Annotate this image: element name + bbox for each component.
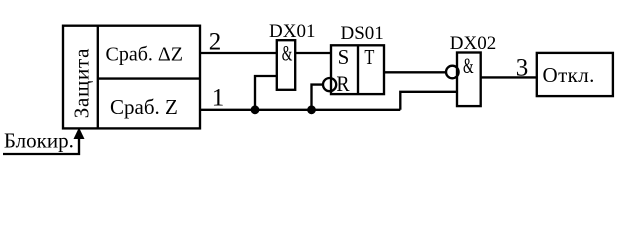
flip-flop DS01 divider — [357, 45, 359, 94]
svg-text:T: T — [364, 45, 374, 69]
svg-text:1: 1 — [212, 85, 225, 112]
svg-text:Блокир.: Блокир. — [4, 129, 74, 153]
block U0 horizontal divider — [98, 77, 200, 79]
wire junction to DX01 pin 2 — [255, 76, 277, 110]
svg-text:DS01: DS01 — [341, 23, 384, 44]
svg-text:S: S — [338, 45, 350, 69]
wire DS01 T output to DX02 — [384, 71, 446, 73]
and-gate DX01 body — [277, 40, 295, 90]
wire node 1 to DX02 pin 2 — [400, 92, 457, 110]
block Откл box — [537, 53, 613, 96]
wire Блокир underline and riser — [3, 139, 79, 155]
svg-text:Сраб. ΔZ: Сраб. ΔZ — [106, 44, 183, 66]
wire node 1 output Сраб. Z — [200, 109, 400, 111]
wire node 2 output Сраб. ΔZ — [200, 52, 277, 54]
wire junction to DS01 R input — [312, 85, 324, 110]
svg-text:DX01: DX01 — [269, 21, 315, 42]
svg-text:R: R — [336, 71, 349, 96]
block U0 vertical divider — [97, 26, 99, 129]
inversion circle DX02 input — [446, 66, 459, 79]
svg-text:Защита: Защита — [70, 48, 94, 119]
svg-text:&: & — [463, 53, 474, 78]
block U0 Защита outer box — [63, 26, 200, 129]
flip-flop DS01 body — [331, 45, 384, 94]
wire DX01 output to DS01 S input — [295, 52, 331, 54]
arrowhead Блокир into Защита — [74, 128, 85, 140]
and-gate DX02 body — [457, 53, 481, 107]
junction dot node 1 / DX01 pin 2 — [251, 105, 260, 114]
svg-text:3: 3 — [516, 54, 529, 81]
wire node 3 DX02 output to Откл — [481, 76, 537, 78]
svg-text:Сраб. Z: Сраб. Z — [110, 95, 178, 119]
inversion circle DS01 R input — [323, 78, 336, 91]
svg-text:DX02: DX02 — [450, 33, 496, 54]
svg-text:Откл.: Откл. — [543, 63, 595, 87]
junction dot node 1 / DS01 R — [307, 105, 316, 114]
svg-text:2: 2 — [209, 29, 222, 56]
svg-text:&: & — [282, 40, 293, 65]
